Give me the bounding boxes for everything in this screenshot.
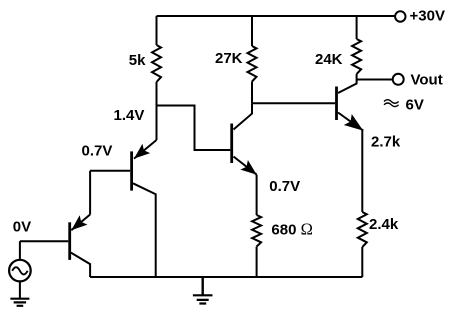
transistor Q0 collector	[71, 253, 90, 277]
wire Q0 base to source	[20, 240, 68, 242]
svg-text:6V: 6V	[406, 97, 424, 114]
wire bottom ground rail	[90, 276, 362, 278]
resistor R5 2.4k	[358, 212, 367, 277]
transistor Q3 emitter (NPN arrow out)	[338, 113, 363, 131]
AC source V1	[9, 260, 31, 282]
transistor Q1 emitter (PNP arrow into base bar)	[134, 140, 157, 159]
wire Q1 base	[90, 170, 130, 172]
transistor Q2 collector	[234, 103, 253, 129]
resistor R3 24K	[352, 16, 361, 80]
transistor Q1 base bar	[130, 151, 133, 190]
svg-text:0.7V: 0.7V	[82, 142, 113, 159]
wire Q3 base from 27K node	[252, 102, 335, 104]
svg-text:24K: 24K	[315, 51, 343, 68]
wire Q2 emitter to R680	[256, 175, 258, 215]
svg-text:680 Ω: 680 Ω	[271, 219, 312, 238]
transistor Q2 emitter (NPN arrow out)	[234, 157, 257, 175]
ground (rail) stem	[201, 277, 203, 295]
wire node 1.4V to Q2 base	[157, 106, 231, 151]
approx symbol	[384, 100, 399, 107]
svg-text:2.7k: 2.7k	[371, 133, 401, 150]
svg-text:+30V: +30V	[410, 7, 445, 24]
svg-text:0.7V: 0.7V	[269, 178, 300, 195]
wire top supply rail	[157, 15, 395, 17]
svg-text:2.4k: 2.4k	[369, 216, 399, 233]
wire Vout	[357, 79, 393, 81]
resistor R2 27K	[248, 16, 257, 103]
wire source lead	[19, 241, 21, 260]
wire Q0 emitter from Q1 base node	[89, 171, 91, 215]
transistor Q2 base bar	[230, 124, 233, 164]
resistor R1 5k	[152, 16, 161, 106]
svg-text:0V: 0V	[13, 219, 31, 236]
ground (rail) bars	[193, 295, 213, 303]
wire node 1.4V down to Q1 emitter	[156, 106, 158, 141]
transistor Q3 collector	[338, 80, 357, 94]
svg-text:5k: 5k	[129, 52, 146, 69]
wire Q3 emitter to R2.4k	[361, 130, 363, 212]
terminal +30V	[395, 11, 405, 21]
transistor Q0 base bar	[68, 222, 71, 260]
transistor Q3 base bar	[335, 87, 338, 121]
terminal Vout	[393, 74, 404, 85]
svg-text:27K: 27K	[215, 50, 243, 67]
svg-text:1.4V: 1.4V	[114, 107, 145, 124]
transistor Q1 collector	[133, 183, 156, 277]
transistor Q0 emitter (PNP arrow into base bar)	[71, 215, 90, 231]
resistor R4 680	[252, 215, 261, 277]
svg-text:Vout: Vout	[411, 72, 443, 89]
wire source to ground	[19, 281, 21, 298]
AC source sine symbol	[12, 267, 27, 274]
ground (source)	[10, 299, 29, 306]
